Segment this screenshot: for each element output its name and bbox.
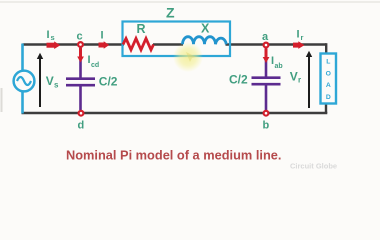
wire top (right of X to corner)	[226, 43, 327, 45]
svg-text:cd: cd	[91, 62, 99, 69]
capacitor C2 (right C/2)	[265, 48, 268, 77]
Z box	[123, 22, 231, 57]
source V1 (AC)	[14, 71, 35, 92]
inductor X	[183, 37, 227, 45]
svg-text:D: D	[326, 94, 331, 101]
svg-text:ab: ab	[275, 63, 283, 70]
faint top artifact line	[0, 1, 380, 3]
wire top (left of Z box)	[23, 43, 125, 45]
wire load bottom drop	[325, 103, 327, 113]
arrow I_s	[47, 43, 56, 48]
arrow V_r	[308, 55, 310, 108]
arrow I (through Z)	[99, 43, 106, 48]
node a	[264, 43, 269, 48]
arrow I_r	[293, 43, 300, 48]
resistor R	[123, 39, 154, 50]
faint left artifact	[1, 88, 3, 112]
svg-text:A: A	[326, 82, 331, 89]
svg-text:d: d	[78, 120, 85, 132]
wire source branch (cyan)	[21, 44, 24, 114]
arrow I_ab	[265, 49, 268, 58]
arrow I_cd	[79, 48, 82, 57]
svg-text:I: I	[297, 29, 300, 41]
svg-text:C/2: C/2	[99, 74, 118, 88]
capacitor C1 (left C/2)	[79, 47, 82, 78]
wire inside Z box between R and X	[153, 43, 183, 45]
svg-text:Z: Z	[166, 5, 175, 21]
svg-text:C/2: C/2	[229, 72, 248, 86]
svg-text:Circuit Globe: Circuit Globe	[290, 162, 337, 171]
svg-text:r: r	[301, 33, 304, 42]
wire bottom	[22, 112, 328, 114]
node d	[79, 111, 84, 116]
svg-text:X: X	[201, 22, 210, 36]
arrow V_s	[39, 57, 41, 107]
LOAD box	[321, 54, 337, 104]
svg-text:I: I	[47, 29, 50, 41]
wire right drop to load	[325, 43, 327, 54]
svg-text:V: V	[46, 74, 54, 88]
svg-text:I: I	[101, 30, 104, 42]
svg-text:Nominal Pi model of a medium l: Nominal Pi model of a medium line.	[66, 148, 281, 163]
node b	[264, 111, 269, 116]
node c	[78, 42, 83, 47]
svg-text:s: s	[51, 33, 55, 42]
svg-text:r: r	[298, 76, 301, 85]
svg-text:a: a	[262, 31, 269, 43]
svg-text:c: c	[77, 31, 83, 43]
svg-text:s: s	[54, 80, 59, 89]
svg-text:V: V	[290, 69, 298, 83]
yellow cursor highlight	[173, 42, 203, 72]
svg-text:L: L	[326, 59, 330, 66]
svg-text:O: O	[326, 71, 331, 78]
svg-text:b: b	[263, 120, 270, 132]
svg-text:R: R	[137, 22, 146, 36]
